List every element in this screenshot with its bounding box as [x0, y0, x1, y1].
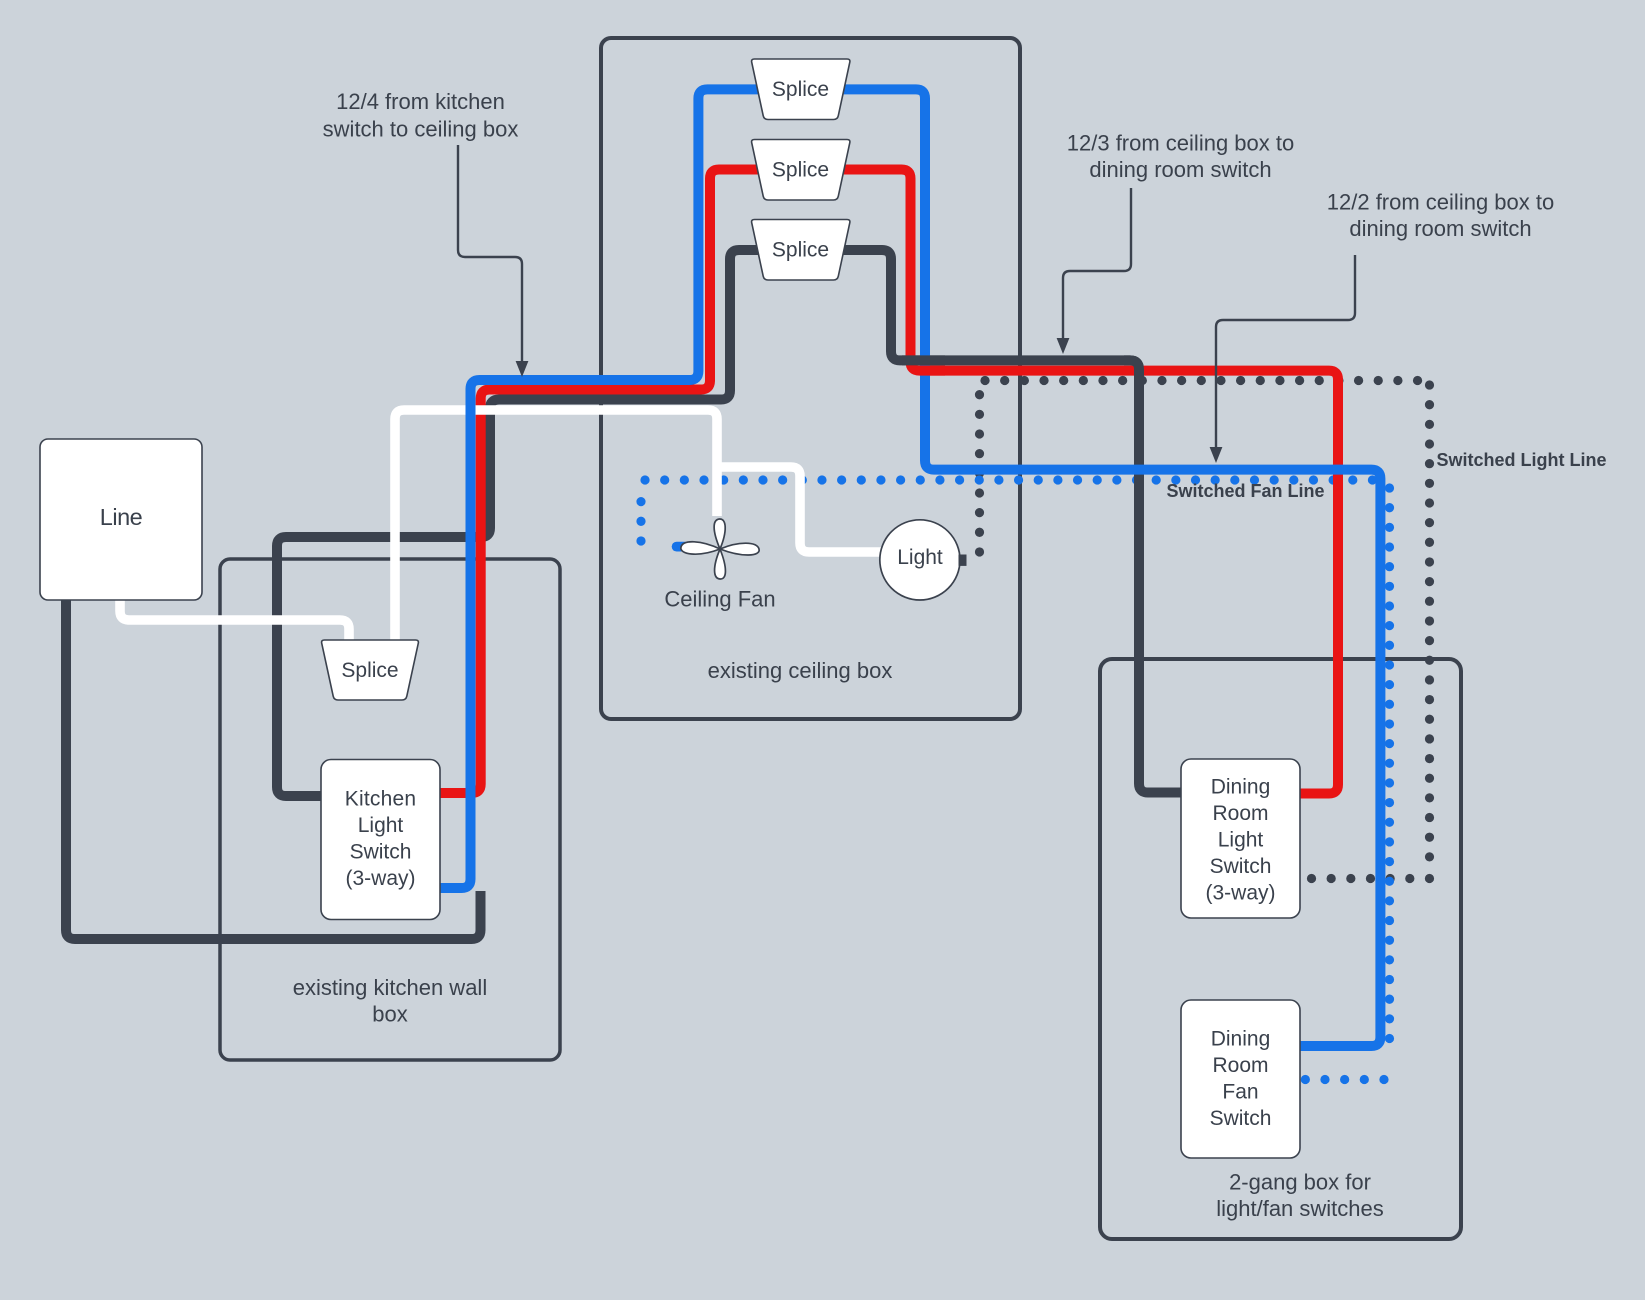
svg-text:Kitchen: Kitchen — [345, 788, 416, 811]
Ceiling Fan icon: blue wire cap — [672, 542, 686, 552]
svg-text:box: box — [372, 1002, 407, 1027]
svg-text:(3-way): (3-way) — [345, 867, 415, 890]
svg-text:Switch: Switch — [1210, 1107, 1272, 1130]
annotation leader: 12/4 arrow — [458, 145, 522, 363]
svg-text:dining room switch: dining room switch — [1089, 157, 1271, 182]
svg-text:existing ceiling box: existing ceiling box — [708, 658, 893, 683]
existing kitchen wall box (outline) — [220, 559, 560, 1060]
svg-text:12/3 from ceiling box to: 12/3 from ceiling box to — [1067, 131, 1294, 156]
splice S3 (black splice, ceiling box) — [752, 220, 850, 281]
svg-text:Splice: Splice — [772, 159, 829, 182]
Dining Room Fan Switch box — [1181, 1000, 1300, 1158]
Dining Room Light Switch (3-way) box — [1181, 759, 1300, 918]
wire: red conductor (kitchen switch - splice - dining light switch) — [440, 170, 1338, 794]
svg-text:(3-way): (3-way) — [1205, 882, 1275, 905]
svg-text:dining room switch: dining room switch — [1349, 216, 1531, 241]
svg-text:existing kitchen wall: existing kitchen wall — [293, 975, 487, 1000]
Light terminal (black square) — [959, 555, 967, 566]
splice S1 (blue splice, ceiling box) — [752, 59, 850, 120]
wire patch: red over blue crossing — [920, 366, 945, 376]
wire patch: black corner over red at (1139,370) — [1124, 360, 1139, 400]
svg-text:Splice: Splice — [341, 659, 398, 682]
Light (fixture circle) — [880, 520, 960, 600]
existing ceiling box (junction box outline) — [601, 38, 1020, 719]
splice SK (kitchen wall box) — [322, 640, 419, 700]
svg-text:switch to ceiling box: switch to ceiling box — [323, 117, 519, 142]
annotation leader: 12/3 arrow — [1063, 188, 1131, 340]
Kitchen Light Switch (3-way) box — [321, 760, 440, 920]
wire: black conductor (kitchen switch - splice - dining light switch) — [277, 250, 1181, 796]
wire: blue conductor (kitchen switch - splice - dining fan switch) — [440, 89, 1380, 1046]
2-gang box for light/fan switches (outline) — [1100, 659, 1461, 1239]
svg-text:Line: Line — [100, 504, 143, 530]
svg-text:Splice: Splice — [772, 239, 829, 262]
svg-text:Switched Fan Line: Switched Fan Line — [1166, 481, 1324, 501]
Ceiling Fan icon: four blades — [681, 519, 759, 579]
dotted net: Switched Light Line (black dotted) — [980, 381, 1430, 879]
annotation leader: 12/2 arrow — [1216, 255, 1355, 449]
svg-text:light/fan switches: light/fan switches — [1216, 1196, 1384, 1221]
Line box — [40, 439, 202, 600]
svg-text:Light: Light — [897, 546, 943, 569]
wire: white neutral kitchen splice to ceiling box / fan drop — [395, 410, 717, 648]
svg-text:2-gang box for: 2-gang box for — [1229, 1170, 1371, 1195]
svg-text:Splice: Splice — [772, 78, 829, 101]
wire: white neutral from Line box to kitchen splice — [120, 598, 349, 648]
svg-text:Ceiling Fan: Ceiling Fan — [664, 587, 775, 612]
splice S2 (red splice, ceiling box) — [752, 140, 850, 201]
wire: black line-feed from Line box — [66, 598, 481, 939]
svg-text:Room: Room — [1212, 1054, 1268, 1077]
svg-text:12/2 from ceiling box to: 12/2 from ceiling box to — [1327, 190, 1554, 215]
svg-text:Light: Light — [358, 814, 404, 837]
wire: white neutral branch to light — [717, 467, 882, 552]
svg-text:Light: Light — [1218, 829, 1264, 852]
svg-text:Switch: Switch — [350, 841, 412, 864]
svg-text:Switch: Switch — [1210, 855, 1272, 878]
svg-text:Fan: Fan — [1222, 1081, 1258, 1104]
svg-text:Switched Light Line: Switched Light Line — [1437, 450, 1607, 470]
svg-text:Room: Room — [1212, 802, 1268, 825]
svg-text:Dining: Dining — [1211, 776, 1271, 799]
wire patch: black over blue crossing — [902, 355, 945, 365]
svg-text:Dining: Dining — [1211, 1028, 1271, 1051]
svg-text:12/4 from kitchen: 12/4 from kitchen — [336, 89, 505, 114]
dotted net: Switched Fan Line (blue dotted) — [641, 480, 1390, 1080]
